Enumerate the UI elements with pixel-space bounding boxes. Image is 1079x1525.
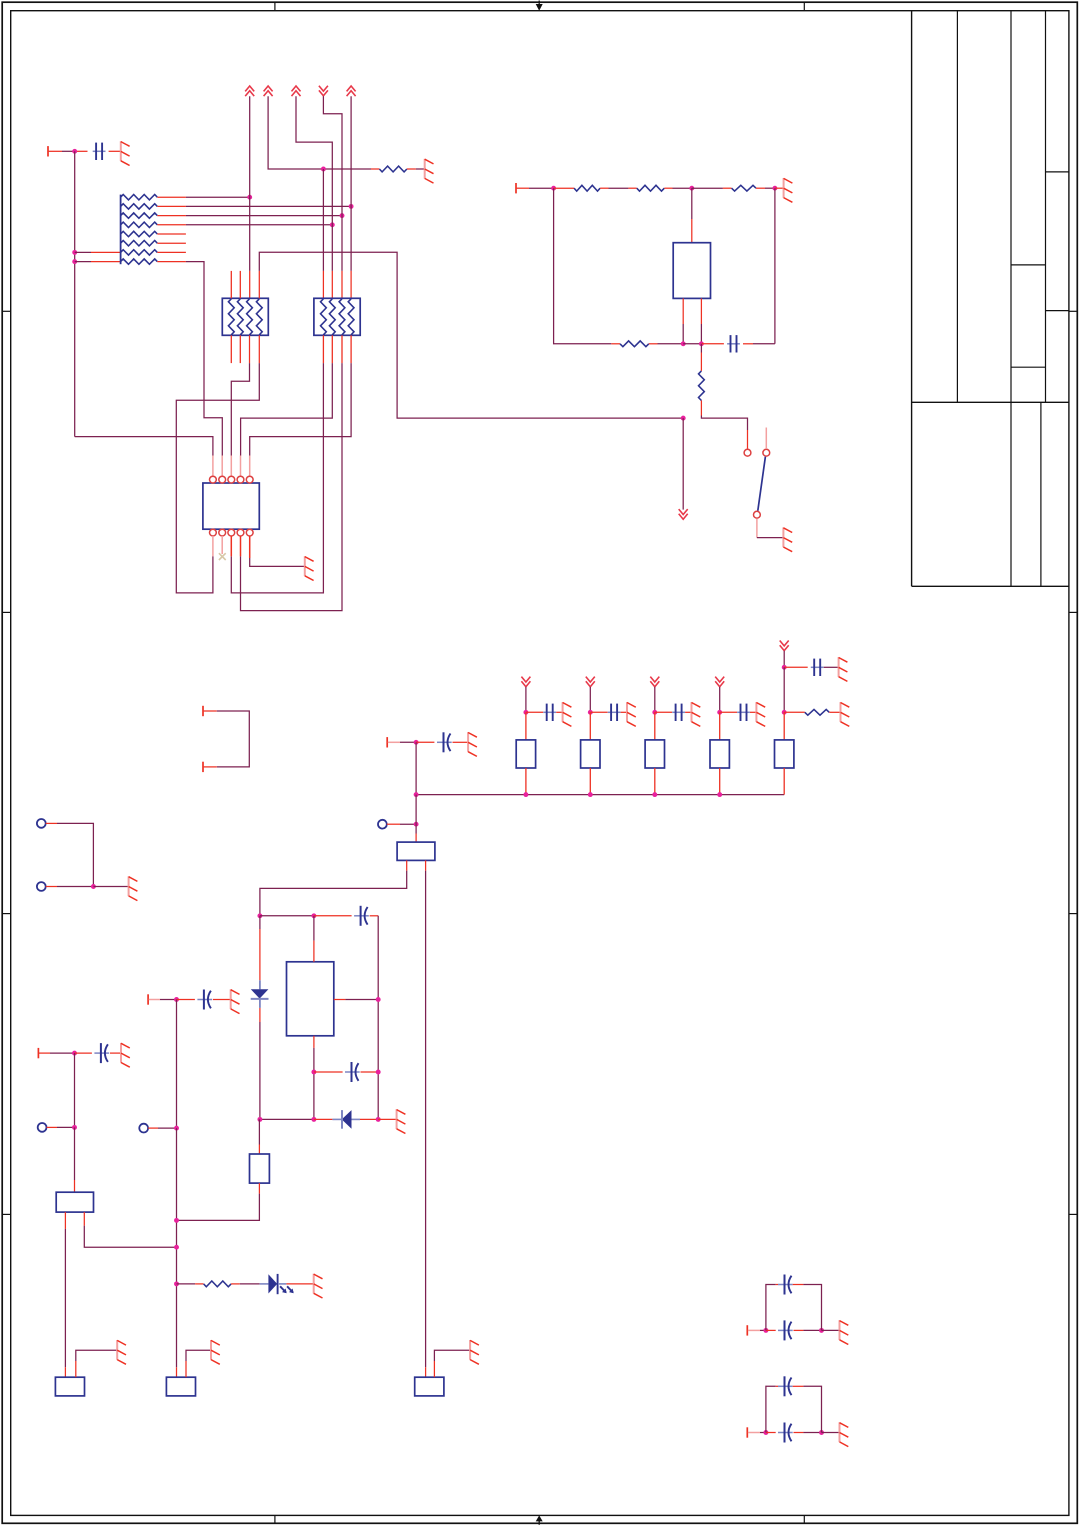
port P3 bbox=[387, 737, 400, 747]
pin stub bbox=[719, 768, 721, 795]
pin stub bbox=[212, 536, 214, 556]
pin stub bbox=[212, 456, 214, 477]
junction bbox=[257, 913, 262, 918]
ground bbox=[756, 702, 765, 726]
power VSS2 bbox=[521, 677, 530, 687]
resistor R4 bbox=[732, 185, 756, 191]
capacitor C12 bbox=[75, 1043, 122, 1063]
wire bbox=[250, 363, 351, 455]
wire bbox=[176, 1367, 178, 1377]
junction bbox=[523, 792, 528, 797]
resistor R1 bbox=[379, 166, 407, 172]
junction bbox=[763, 1430, 768, 1435]
wire bbox=[177, 1183, 260, 1220]
port P5 bbox=[37, 819, 57, 828]
wire bbox=[186, 1350, 211, 1377]
pin stub bbox=[589, 768, 591, 795]
ground bbox=[784, 178, 793, 202]
wire bbox=[701, 343, 724, 345]
fuse F1 bbox=[56, 1192, 93, 1212]
power VCC2 bbox=[264, 86, 273, 96]
ground bbox=[692, 702, 701, 726]
port P2 bbox=[516, 183, 529, 193]
wire bbox=[774, 188, 776, 344]
diode D2 bbox=[314, 1110, 378, 1129]
pin circle bbox=[219, 529, 226, 536]
no-connect X bbox=[219, 553, 226, 560]
ground bbox=[425, 159, 434, 183]
pin stub bbox=[221, 456, 223, 477]
pin stub bbox=[341, 335, 343, 363]
wire bbox=[258, 1119, 260, 1154]
wire bbox=[682, 298, 684, 343]
wire bbox=[74, 151, 76, 436]
junction bbox=[588, 710, 593, 715]
port P9 bbox=[38, 1048, 50, 1058]
wire bbox=[803, 1386, 821, 1432]
wire bbox=[760, 1329, 766, 1331]
wire bbox=[341, 271, 343, 298]
wire bbox=[186, 215, 342, 217]
wire bbox=[313, 916, 315, 962]
wire bbox=[74, 1127, 76, 1192]
wire bbox=[278, 1283, 314, 1285]
wire bbox=[93, 886, 128, 888]
ground bbox=[468, 732, 477, 756]
wire bbox=[654, 687, 656, 712]
wire bbox=[260, 915, 314, 917]
pin stub bbox=[719, 712, 721, 740]
junction bbox=[772, 186, 777, 191]
junction bbox=[414, 740, 419, 745]
wire bbox=[683, 343, 701, 345]
wire bbox=[158, 1127, 177, 1129]
ground bbox=[117, 1340, 126, 1364]
pin stub bbox=[230, 335, 232, 363]
resistor pack RN2 bbox=[222, 298, 268, 335]
ground bbox=[563, 702, 572, 726]
ground bbox=[231, 989, 240, 1013]
junction bbox=[551, 186, 556, 191]
wire bbox=[784, 711, 805, 713]
power VSS5 bbox=[715, 677, 724, 687]
wire bbox=[760, 1432, 766, 1434]
bus wire bbox=[416, 794, 784, 796]
wire bbox=[775, 187, 784, 189]
pin stub bbox=[783, 768, 785, 795]
power VSS1 bbox=[679, 509, 688, 519]
wire bbox=[700, 344, 702, 371]
wire bbox=[554, 187, 575, 189]
wire bbox=[57, 1126, 75, 1128]
wire bbox=[350, 96, 352, 271]
ground bbox=[840, 1422, 849, 1446]
capacitor C5 bbox=[590, 704, 627, 721]
ground bbox=[627, 702, 636, 726]
wire bbox=[378, 1118, 396, 1120]
wire bbox=[313, 1036, 315, 1120]
power VSS6 bbox=[780, 641, 789, 651]
wire bbox=[829, 711, 840, 713]
wire bbox=[241, 363, 333, 455]
wire bbox=[260, 1118, 314, 1120]
junction bbox=[330, 222, 335, 227]
junction bbox=[174, 1126, 179, 1131]
connector J2 bbox=[55, 1377, 84, 1396]
capacitor C7 bbox=[720, 704, 757, 721]
pin stub bbox=[249, 456, 251, 477]
wire bbox=[783, 651, 785, 668]
resistor R5 bbox=[620, 341, 649, 347]
wire bbox=[756, 187, 775, 189]
junction bbox=[376, 1117, 381, 1122]
wire bbox=[186, 196, 250, 198]
wire bbox=[425, 860, 427, 1377]
port bbox=[747, 1427, 760, 1437]
junction bbox=[340, 213, 345, 218]
port P1 bbox=[48, 146, 62, 156]
wire bbox=[822, 1329, 840, 1331]
wire bbox=[649, 343, 683, 345]
wire bbox=[766, 1386, 776, 1432]
junction bbox=[257, 1117, 262, 1122]
junction bbox=[321, 167, 326, 172]
junction bbox=[311, 1070, 316, 1075]
wire bbox=[743, 343, 775, 345]
pin circle bbox=[246, 476, 253, 483]
capacitor C8 bbox=[784, 659, 838, 676]
junction bbox=[72, 149, 77, 154]
wire bbox=[177, 1283, 204, 1285]
wire bbox=[75, 437, 213, 456]
ferrite bead FB5 bbox=[775, 740, 794, 768]
wire bbox=[757, 537, 784, 539]
wire bbox=[334, 999, 378, 1001]
port P7 bbox=[148, 994, 160, 1004]
capacitor C15 bbox=[766, 1423, 804, 1443]
wire bbox=[400, 823, 416, 825]
port bbox=[747, 1325, 760, 1335]
pin circle bbox=[228, 476, 235, 483]
resistor R2 bbox=[574, 185, 600, 191]
power VSS3 bbox=[586, 677, 595, 687]
wire bbox=[766, 1285, 776, 1331]
junction bbox=[689, 186, 694, 191]
junction bbox=[588, 792, 593, 797]
pin circle bbox=[246, 529, 253, 536]
ground bbox=[841, 702, 850, 726]
pin stub bbox=[783, 712, 785, 740]
junction bbox=[523, 710, 528, 715]
wire bbox=[84, 1212, 176, 1247]
wire bbox=[700, 298, 702, 343]
capacitor C16 bbox=[776, 1376, 804, 1396]
junction bbox=[311, 1117, 316, 1122]
connector J4 bbox=[415, 1377, 444, 1396]
ferrite bead FB4 bbox=[710, 740, 729, 768]
ground bbox=[305, 556, 314, 580]
junction bbox=[72, 1125, 77, 1130]
wire bbox=[525, 687, 527, 712]
junction bbox=[174, 1281, 179, 1286]
wire bbox=[600, 187, 637, 189]
pin stub bbox=[240, 536, 242, 556]
resistor R7 bbox=[805, 709, 829, 715]
pin stub bbox=[525, 768, 527, 795]
wire bbox=[803, 1329, 821, 1331]
crystal Y1 bbox=[673, 243, 710, 299]
junction bbox=[717, 792, 722, 797]
resistor R3 bbox=[637, 185, 665, 191]
ground bbox=[783, 527, 792, 551]
ground bbox=[121, 141, 130, 165]
ferrite bead FB2 bbox=[581, 740, 600, 768]
pin circle bbox=[237, 529, 244, 536]
IC U1 bbox=[203, 483, 259, 529]
capacitor C9 bbox=[314, 906, 378, 926]
capacitor C14 bbox=[776, 1275, 804, 1295]
capacitor C1 bbox=[75, 143, 121, 160]
power VCC1 bbox=[245, 86, 254, 96]
diode D1 bbox=[251, 916, 269, 1120]
pin stub bbox=[525, 712, 527, 740]
ground bbox=[121, 1043, 130, 1067]
wire bbox=[611, 343, 620, 345]
resistor pack RN3 bbox=[314, 298, 360, 335]
pin circle bbox=[237, 476, 244, 483]
pin circle bbox=[228, 529, 235, 536]
pin circle bbox=[210, 476, 217, 483]
capacitor C6 bbox=[655, 704, 692, 721]
pin circle bbox=[210, 529, 217, 536]
wire bbox=[434, 1350, 470, 1377]
pin stub bbox=[230, 536, 232, 556]
junction bbox=[311, 913, 316, 918]
wire bbox=[692, 187, 732, 189]
wire bbox=[268, 96, 323, 169]
wire bbox=[664, 187, 692, 189]
pin stub bbox=[331, 335, 333, 363]
junction bbox=[763, 1328, 768, 1333]
regulator U2 bbox=[287, 962, 334, 1036]
wire bbox=[260, 860, 407, 915]
ferrite bead FB3 bbox=[645, 740, 664, 768]
wire bbox=[76, 1350, 117, 1377]
port P6 bbox=[37, 882, 57, 891]
wire bbox=[701, 401, 747, 449]
wire bbox=[231, 1283, 268, 1285]
wire bbox=[186, 224, 332, 226]
wire bbox=[250, 558, 305, 566]
wire bbox=[589, 687, 591, 712]
ground bbox=[397, 1109, 406, 1133]
power VSS4 bbox=[650, 677, 659, 687]
pin stub bbox=[249, 536, 251, 558]
junction bbox=[174, 1245, 179, 1250]
wire bbox=[323, 96, 342, 271]
wire bbox=[822, 1432, 840, 1434]
capacitor C11 bbox=[177, 990, 231, 1010]
wire bbox=[400, 741, 416, 743]
pin circle bbox=[219, 476, 226, 483]
junction bbox=[414, 822, 419, 827]
switch SW1 bbox=[744, 428, 770, 538]
junction bbox=[349, 204, 354, 209]
pin stub bbox=[322, 335, 324, 363]
wire bbox=[75, 261, 121, 263]
wire bbox=[186, 262, 222, 456]
wire bbox=[803, 1285, 821, 1331]
port P4 bbox=[378, 820, 400, 829]
wire bbox=[529, 187, 554, 189]
pin stub bbox=[654, 768, 656, 795]
junction bbox=[782, 710, 787, 715]
port P8 bbox=[139, 1124, 158, 1133]
junction bbox=[681, 416, 686, 421]
pin stub bbox=[350, 335, 352, 363]
resistor network RN1 bbox=[121, 195, 186, 265]
wire bbox=[350, 271, 352, 298]
pin stub bbox=[221, 536, 223, 554]
junction bbox=[652, 710, 657, 715]
ground bbox=[470, 1340, 479, 1364]
wire bbox=[62, 150, 75, 152]
capacitor C13 bbox=[766, 1320, 804, 1340]
resistor R6 bbox=[699, 371, 705, 401]
wire bbox=[691, 188, 693, 243]
connector J1 bbox=[203, 706, 249, 772]
pin stub bbox=[230, 271, 232, 298]
LED D3 bbox=[268, 1274, 293, 1294]
junction bbox=[652, 792, 657, 797]
capacitor C10 bbox=[314, 1062, 378, 1082]
port P10 bbox=[38, 1123, 57, 1132]
wire bbox=[57, 886, 93, 888]
junction bbox=[174, 1218, 179, 1223]
junction bbox=[91, 884, 96, 889]
junction bbox=[681, 341, 686, 346]
ground bbox=[314, 1274, 323, 1298]
ground bbox=[211, 1340, 220, 1364]
wire bbox=[64, 1212, 66, 1377]
pin stub bbox=[589, 712, 591, 740]
resistor R8 bbox=[250, 1154, 270, 1183]
pin stub bbox=[240, 456, 242, 477]
power VDD4 bbox=[319, 86, 328, 96]
power VCC3 bbox=[292, 86, 301, 96]
wire bbox=[415, 795, 417, 843]
wire bbox=[74, 1053, 76, 1127]
junction bbox=[376, 1070, 381, 1075]
wire bbox=[415, 742, 417, 794]
wire bbox=[231, 335, 249, 455]
wire bbox=[296, 96, 332, 271]
junction bbox=[819, 1328, 824, 1333]
wire bbox=[377, 916, 379, 1120]
junction bbox=[699, 341, 704, 346]
wire bbox=[241, 363, 343, 610]
wire bbox=[57, 823, 93, 886]
wire bbox=[50, 1052, 75, 1054]
connector J3 bbox=[166, 1377, 195, 1396]
resistor R9 bbox=[204, 1281, 232, 1287]
ground bbox=[839, 657, 848, 681]
junction bbox=[782, 665, 787, 670]
wire bbox=[176, 335, 259, 593]
wire bbox=[160, 999, 177, 1001]
junction bbox=[717, 710, 722, 715]
wire bbox=[322, 169, 324, 298]
pin stub bbox=[239, 335, 241, 363]
wire bbox=[407, 168, 425, 170]
wire bbox=[75, 251, 121, 253]
junction bbox=[174, 997, 179, 1002]
capacitor C2 bbox=[727, 335, 740, 352]
wire bbox=[803, 1432, 821, 1434]
junction bbox=[72, 259, 77, 264]
ground bbox=[840, 1320, 849, 1344]
wire bbox=[783, 667, 785, 712]
junction bbox=[72, 1051, 77, 1056]
wire bbox=[176, 1128, 178, 1367]
pin stub bbox=[239, 271, 241, 298]
capacitor C3 bbox=[416, 732, 468, 752]
ground bbox=[129, 876, 138, 900]
capacitor C4 bbox=[526, 704, 563, 721]
junction bbox=[414, 792, 419, 797]
wire bbox=[259, 252, 683, 418]
junction bbox=[819, 1430, 824, 1435]
wire bbox=[186, 205, 351, 207]
wire bbox=[231, 363, 323, 593]
ferrite bead FB1 bbox=[516, 740, 535, 768]
title block bbox=[912, 11, 1069, 587]
pin stub bbox=[230, 456, 232, 477]
ferrite bead FB6 bbox=[397, 842, 435, 860]
pin stub bbox=[654, 712, 656, 740]
wire bbox=[554, 188, 612, 344]
junction bbox=[247, 195, 252, 200]
wire bbox=[682, 418, 684, 510]
wire bbox=[176, 1000, 178, 1129]
junction bbox=[376, 997, 381, 1002]
wire bbox=[249, 96, 251, 298]
wire bbox=[323, 168, 379, 170]
junction bbox=[72, 250, 77, 255]
wire bbox=[331, 271, 333, 298]
power VCC5 bbox=[347, 86, 356, 96]
wire bbox=[719, 687, 721, 712]
